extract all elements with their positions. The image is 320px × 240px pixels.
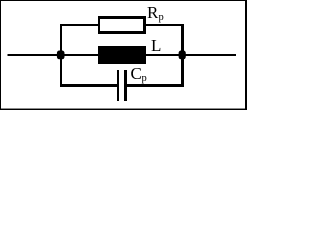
svg-text:p: p bbox=[159, 12, 164, 23]
inductor L (filled rectangle body, DIN symbol) bbox=[98, 46, 146, 64]
capacitor Cp right plate bbox=[124, 70, 127, 101]
svg-text:p: p bbox=[142, 73, 147, 84]
junction node A (left solder dot) bbox=[57, 51, 65, 60]
svg-text:L: L bbox=[151, 36, 161, 55]
junction node B (right solder dot) bbox=[179, 51, 186, 60]
svg-text:C: C bbox=[131, 64, 142, 83]
wire: middle horizontal lead from left terminal through node A and node B to right terminal bbox=[8, 54, 237, 56]
value label Cp bbox=[131, 64, 147, 84]
value label Rp bbox=[147, 3, 164, 23]
wire: bottom branch left segment to capacitor left plate bbox=[60, 84, 118, 87]
wire: top branch horizontal through resistor Rp bbox=[60, 24, 184, 26]
wire: right vertical branch from top branch through node B down to bottom branch bbox=[181, 24, 184, 87]
wire: left vertical branch from top branch through node A down to bottom branch bbox=[60, 24, 62, 87]
wire: bottom branch right segment from capacitor right plate bbox=[124, 84, 184, 87]
capacitor Cp left plate bbox=[117, 70, 119, 101]
svg-text:R: R bbox=[147, 3, 159, 22]
resistor Rp (open rectangle body, DIN symbol) bbox=[98, 16, 146, 34]
